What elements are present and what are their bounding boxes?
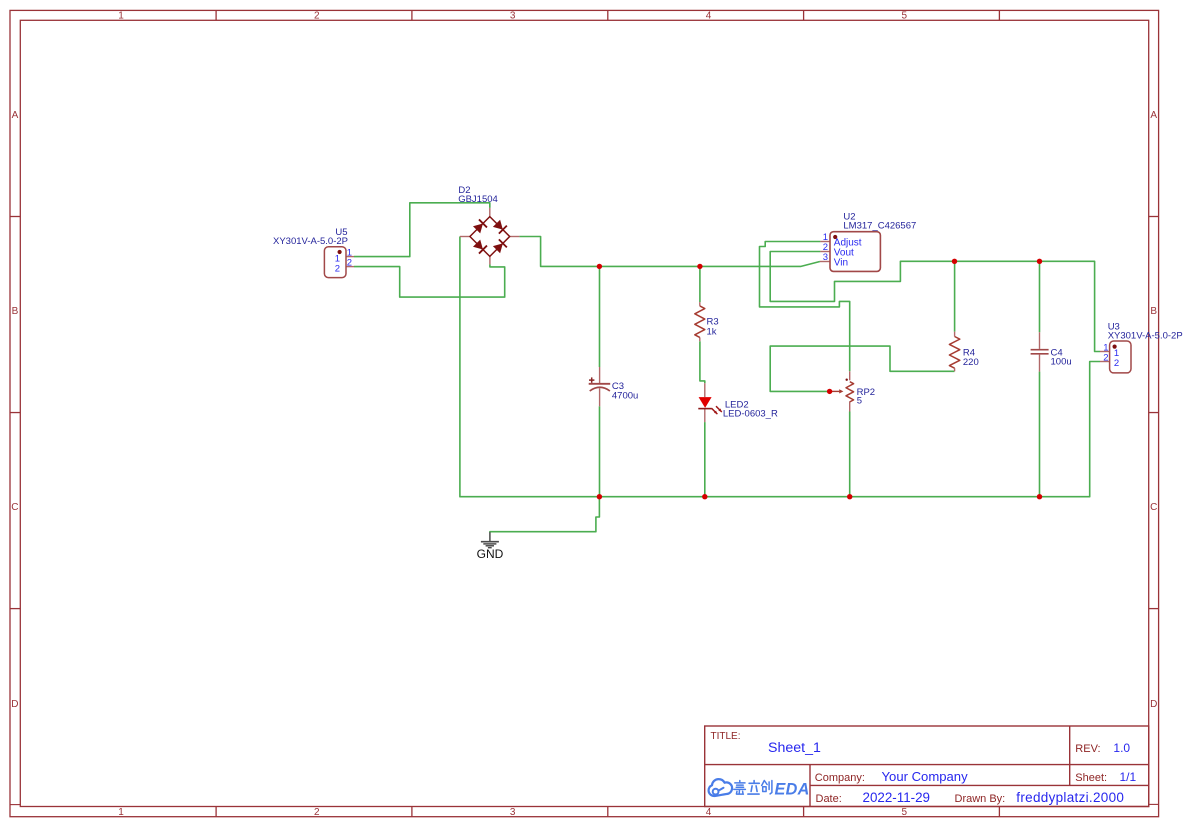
svg-text:LM317_C426567: LM317_C426567: [843, 221, 916, 232]
svg-text:1k: 1k: [707, 326, 717, 337]
svg-text:D: D: [11, 699, 18, 710]
svg-text:GND: GND: [477, 547, 504, 561]
svg-text:3: 3: [510, 11, 516, 22]
svg-text:100u: 100u: [1051, 357, 1072, 368]
svg-text:1/1: 1/1: [1120, 770, 1137, 784]
svg-text:A: A: [1150, 110, 1157, 121]
svg-text:1.0: 1.0: [1113, 741, 1130, 755]
svg-text:LED-0603_R: LED-0603_R: [723, 409, 778, 420]
svg-text:A: A: [12, 110, 19, 121]
svg-text:Your Company: Your Company: [882, 769, 969, 784]
svg-text:2: 2: [1103, 353, 1108, 364]
svg-text:3: 3: [823, 252, 828, 263]
svg-text:5: 5: [902, 807, 908, 818]
svg-text:GBJ1504: GBJ1504: [458, 194, 498, 205]
svg-text:4700u: 4700u: [612, 391, 638, 402]
svg-text:freddyplatzi.2000: freddyplatzi.2000: [1016, 790, 1124, 805]
svg-text:Sheet:: Sheet:: [1075, 772, 1107, 784]
svg-text:XY301V-A-5.0-2P: XY301V-A-5.0-2P: [1108, 331, 1183, 342]
svg-text:4: 4: [706, 11, 712, 22]
svg-text:4: 4: [706, 807, 712, 818]
svg-text:2: 2: [314, 11, 320, 22]
svg-text:5: 5: [902, 11, 908, 22]
svg-text:2: 2: [347, 258, 352, 269]
svg-text:Date:: Date:: [816, 793, 842, 805]
svg-text:3: 3: [510, 807, 516, 818]
svg-text:TITLE:: TITLE:: [711, 731, 741, 742]
svg-text:EDA: EDA: [775, 781, 810, 799]
svg-text:B: B: [12, 306, 19, 317]
svg-text:Drawn By:: Drawn By:: [955, 793, 1006, 805]
svg-text:D: D: [1150, 699, 1157, 710]
svg-text:REV:: REV:: [1075, 743, 1100, 755]
svg-text:XY301V-A-5.0-2P: XY301V-A-5.0-2P: [273, 236, 348, 247]
svg-text:2: 2: [335, 263, 340, 274]
svg-text:Sheet_1: Sheet_1: [768, 740, 821, 756]
svg-text:2022-11-29: 2022-11-29: [863, 790, 931, 805]
svg-text:1: 1: [118, 11, 124, 22]
svg-text:220: 220: [963, 357, 979, 368]
svg-text:1: 1: [118, 807, 124, 818]
svg-text:Company:: Company:: [815, 772, 865, 784]
svg-text:Vin: Vin: [834, 257, 848, 268]
svg-text:2: 2: [314, 807, 320, 818]
svg-text:5: 5: [857, 396, 862, 407]
svg-text:B: B: [1150, 306, 1157, 317]
svg-text:C: C: [1150, 502, 1157, 513]
svg-text:2: 2: [1114, 358, 1119, 369]
svg-text:C: C: [11, 502, 18, 513]
